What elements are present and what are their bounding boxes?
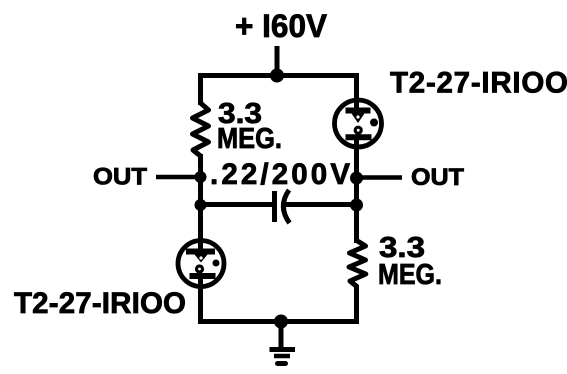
wire: ground stub: [279, 322, 284, 350]
wire: capacitor link right: [285, 202, 357, 207]
junction dot: B+ node on top rail: [270, 69, 284, 83]
neon tube V2 (bottom left, T2-27-IR100): [178, 238, 224, 291]
svg-text:+ I60V: + I60V: [235, 8, 328, 44]
svg-text:OUT: OUT: [411, 164, 464, 191]
resistor R1 3.3 MEG (left): [193, 103, 209, 156]
neon tube V1 (top right, T2-27-IR100): [335, 97, 382, 151]
wire: left branch upper segment: [198, 73, 203, 105]
ground symbol: [270, 350, 296, 364]
svg-text:OUT: OUT: [93, 164, 147, 191]
capacitor C1 right plate (curved): [283, 190, 289, 223]
value label R2: 3.3 MEG.: [378, 232, 442, 291]
resistor R2 3.3 MEG (right): [349, 241, 366, 287]
node: left OUT junction dot: [195, 171, 207, 183]
wire: left OUT stub: [156, 175, 198, 180]
wire: right branch upper segment: [354, 73, 359, 99]
value label R1: 3.3 MEG.: [217, 98, 282, 155]
wire: B+ feed from +160V label: [275, 46, 280, 78]
node: left capacitor junction dot: [195, 199, 207, 211]
wire: left branch middle segment: [198, 154, 203, 241]
wire: top rail: [198, 73, 359, 78]
capacitor C1 left plate: [272, 191, 277, 222]
wire: left branch lower segment: [198, 288, 203, 324]
node: right capacitor junction dot: [350, 199, 363, 212]
svg-text:MEG.: MEG.: [378, 259, 442, 291]
node: right OUT junction dot: [350, 172, 363, 185]
wire: capacitor link left: [201, 202, 273, 207]
wire: bottom rail: [198, 319, 359, 324]
junction dot: ground node: [274, 315, 288, 329]
wire: right OUT stub: [358, 175, 402, 180]
wire: right branch lower segment: [354, 285, 359, 324]
svg-text:T2-27-IRIOO: T2-27-IRIOO: [14, 287, 186, 320]
svg-text:MEG.: MEG.: [217, 123, 282, 155]
wire: right branch middle segment: [354, 148, 359, 243]
svg-text:T2-27-IRIOO: T2-27-IRIOO: [390, 67, 567, 100]
